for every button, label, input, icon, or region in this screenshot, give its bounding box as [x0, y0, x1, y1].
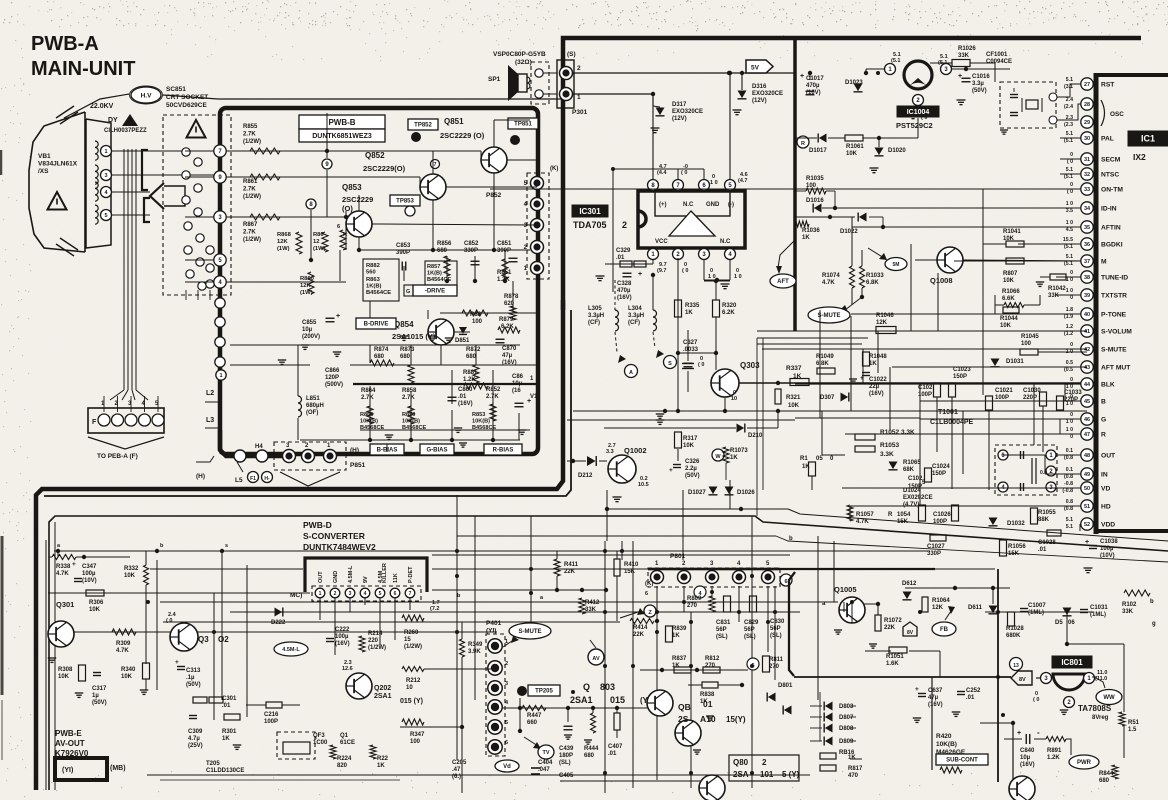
- svg-text:680K: 680K: [1006, 633, 1021, 639]
- svg-text:TP853: TP853: [396, 199, 414, 205]
- svg-text:(1/2W): (1/2W): [368, 645, 386, 651]
- svg-text:270: 270: [687, 603, 698, 609]
- svg-text:D809: D809: [839, 739, 854, 745]
- svg-text:R349: R349: [468, 642, 483, 648]
- svg-text:33K: 33K: [958, 53, 970, 59]
- svg-text:CRT SOCKET: CRT SOCKET: [166, 94, 208, 101]
- svg-text:0: 0: [1070, 182, 1073, 188]
- svg-text:10K: 10K: [89, 607, 101, 613]
- svg-text:R839: R839: [672, 626, 687, 632]
- svg-text:C637: C637: [928, 688, 943, 694]
- svg-text:D5: D5: [1055, 620, 1063, 626]
- svg-text:2: 2: [577, 65, 581, 72]
- svg-text:IN: IN: [1101, 472, 1108, 479]
- svg-text:R879: R879: [499, 317, 514, 323]
- svg-text:D851: D851: [455, 338, 470, 344]
- svg-text:R811: R811: [769, 657, 784, 663]
- svg-text:BGDKI: BGDKI: [1101, 242, 1123, 249]
- svg-text:s: s: [225, 543, 228, 549]
- svg-text:C1LDD130CE: C1LDD130CE: [206, 768, 244, 774]
- svg-text:+: +: [800, 73, 804, 80]
- svg-text:(H): (H): [350, 447, 359, 454]
- svg-text:KILLER: KILLER: [382, 563, 388, 583]
- svg-text:6: 6: [784, 579, 787, 585]
- svg-text:TA7808S: TA7808S: [1078, 704, 1112, 713]
- svg-text:P-DET: P-DET: [408, 566, 414, 583]
- svg-text:R309: R309: [116, 641, 131, 647]
- svg-text:10K: 10K: [1000, 323, 1012, 329]
- svg-text:R1026: R1026: [958, 46, 976, 52]
- svg-text:0.1: 0.1: [1066, 448, 1073, 454]
- svg-text:AFTIN: AFTIN: [1101, 225, 1121, 232]
- svg-text:D212: D212: [578, 473, 593, 479]
- svg-text:5: 5: [379, 591, 382, 597]
- svg-text:1K: 1K: [672, 633, 680, 639]
- svg-text:28: 28: [1084, 102, 1090, 108]
- svg-text:(5.1: (5.1: [1064, 138, 1073, 144]
- svg-text:Q1005: Q1005: [834, 585, 857, 594]
- svg-text:R1033: R1033: [866, 273, 884, 279]
- svg-text:0: 0: [1070, 152, 1073, 158]
- svg-text:VDD: VDD: [1101, 522, 1115, 529]
- svg-text:R: R: [1101, 432, 1106, 439]
- svg-text:VCC: VCC: [655, 239, 668, 245]
- svg-text:R224: R224: [337, 756, 352, 762]
- svg-text:D807: D807: [839, 715, 854, 721]
- svg-text:48: 48: [1084, 453, 1090, 459]
- svg-text:1.2K: 1.2K: [1047, 755, 1060, 761]
- svg-text:R1056: R1056: [1008, 544, 1026, 550]
- svg-text:Q1008: Q1008: [930, 276, 953, 285]
- svg-text:C851: C851: [497, 241, 512, 247]
- svg-text:C1007: C1007: [1028, 603, 1046, 609]
- svg-text:1K: 1K: [793, 373, 802, 380]
- svg-text:2SC2229(O): 2SC2229(O): [363, 164, 406, 173]
- svg-text:2.2µ: 2.2µ: [685, 466, 697, 472]
- svg-text:(O): (O): [342, 204, 353, 213]
- svg-text:56P: 56P: [716, 627, 727, 633]
- svg-text:0: 0: [1070, 412, 1073, 418]
- svg-text:10K: 10K: [121, 674, 133, 680]
- svg-text:10.5: 10.5: [638, 482, 649, 488]
- svg-text:10: 10: [406, 685, 413, 691]
- svg-text:R1035: R1035: [806, 176, 824, 182]
- svg-text:R1055: R1055: [1038, 510, 1056, 516]
- svg-text:P851: P851: [350, 462, 366, 469]
- svg-text:(4.7: (4.7: [738, 178, 747, 184]
- svg-text:15.5: 15.5: [1063, 237, 1073, 243]
- svg-text:33K: 33K: [1122, 609, 1134, 615]
- svg-text:(7.2: (7.2: [430, 606, 439, 612]
- svg-text:22µ: 22µ: [869, 384, 880, 390]
- svg-text:(16V): (16V): [458, 401, 473, 407]
- svg-text:R891: R891: [1047, 748, 1062, 754]
- svg-text:R863: R863: [366, 277, 381, 283]
- svg-text:(4.4: (4.4: [657, 170, 667, 176]
- svg-text:100: 100: [472, 319, 483, 325]
- svg-text:(4.7V): (4.7V): [903, 502, 919, 508]
- svg-text:Vd: Vd: [503, 764, 511, 770]
- svg-text:DY: DY: [108, 117, 118, 124]
- svg-text:TP852: TP852: [414, 123, 432, 129]
- svg-text:0: 0: [1070, 295, 1073, 301]
- svg-text:(1ML): (1ML): [1090, 612, 1106, 618]
- svg-text:680µH: 680µH: [306, 403, 324, 409]
- svg-text:Q854: Q854: [394, 320, 414, 329]
- svg-text:1K: 1K: [377, 763, 385, 769]
- svg-text:100µ: 100µ: [335, 634, 349, 640]
- svg-text:49: 49: [1084, 472, 1090, 478]
- svg-text:O2: O2: [218, 635, 229, 644]
- svg-text:D1017: D1017: [809, 148, 827, 154]
- svg-text:5.1: 5.1: [1066, 167, 1073, 173]
- svg-text:R872: R872: [466, 347, 481, 353]
- svg-text:12K: 12K: [300, 283, 311, 289]
- svg-text:6: 6: [645, 591, 648, 597]
- svg-text:(50V): (50V): [92, 700, 107, 706]
- svg-text:120P: 120P: [325, 375, 339, 381]
- svg-text:150P: 150P: [953, 374, 967, 380]
- svg-text:P401: P401: [486, 620, 502, 627]
- svg-text:F1: F1: [250, 476, 256, 482]
- svg-text:P301: P301: [572, 109, 588, 116]
- svg-text:(2.4: (2.4: [1064, 104, 1073, 110]
- svg-text:L304: L304: [628, 306, 642, 312]
- svg-text:D801: D801: [778, 683, 793, 689]
- svg-text:C328: C328: [617, 281, 632, 287]
- svg-text:C831: C831: [716, 620, 731, 626]
- svg-text:(50V): (50V): [972, 88, 987, 94]
- svg-text:S-CONVERTER: S-CONVERTER: [303, 531, 365, 541]
- svg-text:50: 50: [1084, 486, 1090, 492]
- svg-text:.01: .01: [222, 703, 231, 709]
- svg-text:1µ: 1µ: [92, 693, 99, 699]
- svg-text:10K(B): 10K(B): [472, 419, 490, 425]
- svg-text:46: 46: [1084, 417, 1090, 423]
- svg-text:3.3µH: 3.3µH: [628, 313, 644, 319]
- svg-text:C439: C439: [559, 746, 574, 752]
- svg-text:b: b: [1150, 599, 1154, 605]
- svg-text:Q: Q: [583, 682, 590, 692]
- svg-text:(5.1: (5.1: [1064, 244, 1073, 250]
- svg-text:1 0: 1 0: [708, 274, 716, 280]
- svg-text:2.7K: 2.7K: [402, 395, 415, 401]
- svg-text:390P: 390P: [396, 250, 410, 256]
- svg-text:R1065: R1065: [903, 460, 921, 466]
- svg-text:100: 100: [1021, 341, 1032, 347]
- svg-text:5M: 5M: [893, 262, 900, 268]
- svg-text:( 0: ( 0: [1067, 189, 1073, 195]
- svg-text:C866: C866: [325, 368, 340, 374]
- svg-text:(-0.8: (-0.8: [1062, 488, 1073, 494]
- svg-text:4: 4: [364, 591, 367, 597]
- svg-text:680: 680: [437, 248, 448, 254]
- svg-text:.01: .01: [608, 751, 617, 757]
- svg-text:R1073: R1073: [730, 448, 748, 454]
- svg-text:-: -: [1037, 728, 1040, 737]
- svg-text:R1052 3.3K: R1052 3.3K: [880, 429, 915, 436]
- svg-text:(16V): (16V): [617, 295, 632, 301]
- svg-text:C1031: C1031: [1090, 605, 1108, 611]
- svg-text:(1/2W): (1/2W): [404, 644, 422, 650]
- svg-text:R212: R212: [406, 678, 421, 684]
- svg-text:R-BIAS: R-BIAS: [493, 448, 514, 454]
- svg-text:C86: C86: [512, 374, 524, 380]
- svg-text:C317: C317: [92, 686, 107, 692]
- svg-text:+: +: [958, 73, 962, 80]
- svg-text:AV-OUT: AV-OUT: [55, 739, 85, 748]
- svg-text:D307: D307: [820, 395, 835, 401]
- svg-text:VD: VD: [1101, 486, 1110, 493]
- svg-text:C329: C329: [616, 248, 631, 254]
- svg-text:R51: R51: [1128, 720, 1140, 726]
- svg-text:C326: C326: [685, 459, 700, 465]
- svg-text:IC301: IC301: [579, 207, 601, 216]
- svg-text:390P: 390P: [497, 248, 511, 254]
- svg-text:C1023: C1023: [953, 367, 971, 373]
- svg-text:1K: 1K: [700, 699, 708, 705]
- svg-text:R1044: R1044: [1000, 316, 1018, 322]
- svg-text:R858: R858: [402, 388, 417, 394]
- svg-text:R321: R321: [786, 395, 801, 401]
- svg-text:.47: .47: [452, 767, 461, 773]
- svg-text:2S: 2S: [678, 714, 689, 724]
- svg-text:(K): (K): [645, 581, 653, 587]
- svg-text:Q853: Q853: [342, 183, 362, 192]
- svg-text:(S): (S): [567, 51, 576, 58]
- svg-text:SUB-CONT: SUB-CONT: [946, 758, 978, 764]
- svg-text:680: 680: [1099, 778, 1110, 784]
- svg-text:TP851: TP851: [514, 122, 532, 128]
- svg-text:C347: C347: [82, 564, 97, 570]
- svg-text:R447: R447: [527, 713, 542, 719]
- svg-text:(2.3: (2.3: [1064, 122, 1073, 128]
- svg-text:C1033: C1033: [1064, 390, 1082, 396]
- svg-text:QB: QB: [678, 702, 691, 712]
- svg-text:2SA: 2SA: [733, 770, 749, 779]
- svg-text:(1/2W): (1/2W): [243, 139, 261, 145]
- svg-text:0.5: 0.5: [1066, 360, 1073, 366]
- svg-text:.0033: .0033: [683, 347, 699, 353]
- svg-text:AFT: AFT: [777, 279, 789, 285]
- svg-text:M: M: [1101, 259, 1107, 266]
- svg-text:+: +: [1085, 539, 1089, 546]
- svg-text:-DRIVE: -DRIVE: [425, 289, 445, 295]
- svg-text:C1024: C1024: [932, 464, 950, 470]
- svg-text:1K: 1K: [730, 455, 738, 461]
- svg-text:(5.1: (5.1: [1064, 261, 1073, 267]
- svg-text:2: 2: [505, 661, 508, 667]
- svg-text:SC851: SC851: [166, 86, 186, 93]
- svg-text:5 (Y): 5 (Y): [782, 770, 800, 779]
- svg-text:PAL: PAL: [1101, 136, 1114, 143]
- svg-text:D612: D612: [902, 581, 917, 587]
- svg-text:680: 680: [374, 354, 385, 360]
- svg-text:L305: L305: [588, 306, 602, 312]
- svg-text:100µ: 100µ: [82, 571, 96, 577]
- svg-text:10K: 10K: [124, 573, 136, 579]
- svg-text:470µ: 470µ: [617, 288, 631, 294]
- svg-text:B-DRIVE: B-DRIVE: [364, 322, 389, 328]
- svg-text:(0.8: (0.8: [1064, 506, 1073, 512]
- svg-text:R22: R22: [377, 756, 389, 762]
- svg-text:1.6K: 1.6K: [886, 661, 899, 667]
- svg-text:10K: 10K: [683, 443, 695, 449]
- svg-text:Q852: Q852: [365, 151, 385, 160]
- svg-text:1 0: 1 0: [1066, 427, 1073, 433]
- svg-text:R856: R856: [437, 241, 452, 247]
- svg-text:1.2: 1.2: [1066, 324, 1073, 330]
- svg-text:3: 3: [505, 681, 508, 687]
- svg-text:56P: 56P: [744, 627, 755, 633]
- svg-text:R306: R306: [89, 600, 104, 606]
- svg-text:51: 51: [1084, 504, 1090, 510]
- svg-text:1 0: 1 0: [1066, 277, 1073, 283]
- svg-text:C1017: C1017: [806, 76, 824, 82]
- svg-text:R1041: R1041: [1003, 229, 1021, 235]
- svg-text:R853: R853: [472, 412, 485, 418]
- svg-text:.01: .01: [966, 695, 975, 701]
- svg-text:44: 44: [1084, 382, 1091, 388]
- svg-text:8V: 8V: [1019, 677, 1026, 683]
- svg-text:L851: L851: [306, 396, 320, 402]
- svg-text:3.9K: 3.9K: [468, 649, 481, 655]
- svg-text:13: 13: [1013, 663, 1019, 669]
- svg-text:+: +: [336, 313, 340, 320]
- svg-text:PWB-D: PWB-D: [303, 520, 332, 530]
- svg-text:(9.7: (9.7: [657, 268, 666, 274]
- svg-text:5.1: 5.1: [1066, 254, 1073, 260]
- svg-text:W: W: [715, 454, 721, 460]
- svg-text:D1031: D1031: [1006, 359, 1024, 365]
- svg-text:S-MUTE: S-MUTE: [1101, 347, 1127, 354]
- svg-text:TUNE-ID: TUNE-ID: [1101, 275, 1128, 282]
- svg-text:1 0: 1 0: [1066, 201, 1073, 207]
- svg-text:R1064: R1064: [932, 598, 950, 604]
- svg-text:2.7K: 2.7K: [361, 395, 374, 401]
- svg-text:( 0: ( 0: [682, 268, 688, 274]
- svg-text:+: +: [1017, 730, 1021, 737]
- svg-text:1 0: 1 0: [1066, 419, 1073, 425]
- svg-text:2SA1: 2SA1: [570, 695, 593, 705]
- svg-text:660: 660: [527, 720, 538, 726]
- svg-text:270: 270: [769, 664, 780, 670]
- svg-text:12: 12: [313, 239, 319, 245]
- svg-text:C860: C860: [458, 387, 473, 393]
- svg-text:R1028: R1028: [1006, 626, 1024, 632]
- svg-text:MC): MC): [290, 592, 302, 599]
- svg-text:C252: C252: [966, 688, 981, 694]
- svg-text:R1072: R1072: [884, 618, 902, 624]
- svg-text:R1061: R1061: [846, 144, 864, 150]
- svg-text:GND: GND: [706, 202, 720, 208]
- svg-text:22K: 22K: [884, 625, 896, 631]
- svg-text:R837: R837: [672, 656, 687, 662]
- svg-text:680: 680: [400, 354, 411, 360]
- svg-text:D1022: D1022: [840, 229, 858, 235]
- svg-text:8V: 8V: [907, 630, 914, 636]
- svg-text:4.5: 4.5: [1066, 227, 1073, 233]
- svg-text:9V: 9V: [363, 576, 369, 583]
- svg-text:820: 820: [337, 763, 348, 769]
- svg-text:470µ: 470µ: [806, 83, 820, 89]
- svg-text:2: 2: [762, 758, 767, 767]
- svg-text:R1049: R1049: [816, 354, 834, 360]
- svg-text:1 0: 1 0: [710, 180, 718, 186]
- svg-text:(12V): (12V): [672, 116, 687, 122]
- svg-text:D1016: D1016: [806, 198, 824, 204]
- svg-text:D316: D316: [752, 84, 767, 90]
- svg-text:0.1: 0.1: [1066, 467, 1073, 473]
- svg-text:1054: 1054: [897, 512, 911, 518]
- svg-text:3.3K: 3.3K: [880, 451, 894, 458]
- svg-text:(1.2: (1.2: [1064, 331, 1073, 337]
- svg-text:4.7K: 4.7K: [822, 280, 835, 286]
- svg-text:Q1002: Q1002: [624, 446, 647, 455]
- svg-text:47: 47: [1084, 432, 1090, 438]
- svg-text:4.7K: 4.7K: [56, 571, 69, 577]
- svg-text:b: b: [789, 536, 793, 542]
- svg-text:OUT: OUT: [318, 571, 324, 583]
- svg-text:(CF): (CF): [588, 320, 600, 326]
- svg-text:B4564CE: B4564CE: [366, 290, 391, 296]
- svg-text:C870: C870: [502, 346, 517, 352]
- svg-text:R838: R838: [700, 692, 715, 698]
- svg-text:D803: D803: [839, 704, 854, 710]
- svg-text:27: 27: [1084, 82, 1090, 88]
- svg-text:5: 5: [505, 720, 508, 726]
- svg-text:D317: D317: [672, 102, 687, 108]
- svg-text:R860: R860: [300, 276, 314, 282]
- svg-text:AV: AV: [592, 656, 600, 662]
- svg-text:C830: C830: [770, 619, 785, 625]
- svg-text:1K: 1K: [672, 663, 680, 669]
- svg-text:R301: R301: [222, 729, 237, 735]
- svg-text:B: B: [1101, 399, 1106, 406]
- svg-text:220P: 220P: [1064, 397, 1078, 403]
- svg-text:G: G: [1101, 417, 1106, 424]
- svg-text:R444: R444: [584, 746, 599, 752]
- svg-text:IX2: IX2: [1133, 152, 1146, 162]
- svg-text:2SA1: 2SA1: [374, 693, 392, 700]
- svg-text:C829: C829: [744, 620, 759, 626]
- svg-text:R882: R882: [366, 263, 380, 269]
- svg-text:(5.1: (5.1: [1064, 174, 1073, 180]
- svg-text:0.0: 0.0: [1040, 470, 1047, 476]
- svg-text:L3: L3: [206, 417, 214, 424]
- svg-text:0: 0: [1070, 434, 1073, 440]
- svg-text:G-BIAS: G-BIAS: [427, 448, 448, 454]
- svg-text:SECM: SECM: [1101, 157, 1121, 164]
- svg-text:5.1: 5.1: [1066, 524, 1073, 530]
- svg-text:(-): (-): [728, 202, 734, 208]
- svg-text:D1027: D1027: [688, 490, 706, 496]
- svg-text:D1020: D1020: [888, 148, 906, 154]
- svg-text:TDA705: TDA705: [573, 220, 607, 230]
- svg-text:A: A: [629, 370, 633, 376]
- svg-text:R878: R878: [504, 294, 519, 300]
- svg-text:C0094CE: C0094CE: [986, 59, 1012, 65]
- svg-text:560: 560: [366, 270, 376, 276]
- svg-text:S-VOLUM: S-VOLUM: [1101, 329, 1132, 336]
- svg-text:100P: 100P: [995, 395, 1009, 401]
- svg-text:6: 6: [505, 740, 508, 746]
- svg-text:22.0KV: 22.0KV: [90, 103, 114, 110]
- svg-text:(YI): (YI): [62, 767, 73, 774]
- svg-text:C1030: C1030: [1023, 388, 1041, 394]
- svg-text:(6.): (6.): [452, 774, 461, 780]
- svg-text:1K: 1K: [869, 361, 877, 367]
